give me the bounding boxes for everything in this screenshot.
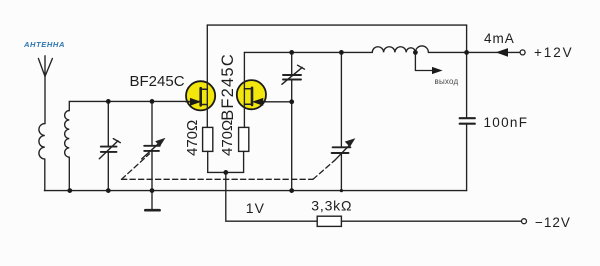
- svg-text:−12V: −12V: [535, 215, 571, 230]
- svg-text:100nF: 100nF: [484, 115, 529, 130]
- wire C3 branch top: [291, 52, 293, 74]
- wire top rail right drop: [466, 25, 468, 52]
- svg-text:BF245C: BF245C: [130, 73, 185, 90]
- resistor R1 470ohm body: [203, 127, 213, 151]
- trimmer capacitor C1 plates: [101, 147, 117, 152]
- transformer secondary L1b: [65, 111, 70, 158]
- svg-text:+12V: +12V: [534, 45, 574, 60]
- transistor Q1 gate arrow: [186, 101, 192, 103]
- node gate-C2: [150, 99, 155, 104]
- wire L1b bottom lead: [68, 157, 70, 190]
- dashed gang linkage: [122, 154, 335, 180]
- node rail-C4: [339, 50, 344, 55]
- wire R1 R2 bottom join: [208, 151, 244, 172]
- terminal -12V: [522, 219, 527, 224]
- svg-text:1V: 1V: [246, 200, 265, 216]
- node Q2 gate-C3: [289, 99, 294, 104]
- wire Q1 drain-source vertical: [206, 25, 208, 127]
- svg-text:выход: выход: [435, 77, 459, 86]
- transistor Q2 channel: [251, 88, 254, 105]
- inductor L2: [372, 46, 428, 53]
- variable capacitor C2 arrow: [142, 144, 159, 159]
- transistor Q2 gate arrow: [260, 101, 266, 103]
- wire Q2 drain-source vertical: [243, 52, 245, 127]
- transistor Q2 BF245C body: [237, 80, 266, 109]
- wire C2 branch: [151, 101, 153, 190]
- current arrow 4mA: [497, 49, 507, 56]
- svg-text:BF245C: BF245C: [219, 53, 237, 121]
- ground: [151, 191, 153, 210]
- wire top rail: [207, 24, 466, 26]
- node gate-C1: [106, 99, 111, 104]
- capacitor C5 100nF plates: [460, 118, 475, 124]
- svg-text:4mA: 4mA: [484, 31, 515, 46]
- wire L1a bottom lead: [44, 159, 46, 191]
- node rail-right: [464, 50, 469, 55]
- node rail-C3: [289, 50, 294, 55]
- trimmer capacitor C3 plates: [283, 75, 301, 80]
- variable capacitor C4 plates: [332, 147, 351, 153]
- wire C3 branch bottom: [291, 80, 293, 190]
- transistor Q1 channel: [199, 88, 202, 105]
- node bus-C2: [150, 188, 155, 193]
- wire to R3 (1V node): [226, 172, 317, 221]
- node bus-C4: [340, 189, 343, 192]
- output tap arrow: [433, 68, 442, 74]
- wire +12V rail left segment: [244, 51, 372, 53]
- antenna: [38, 56, 52, 77]
- transistor Q1 BF245C body: [186, 81, 215, 110]
- node bus-C3: [289, 188, 294, 193]
- wire R3 to -12V terminal: [341, 220, 521, 222]
- output tap wire: [415, 52, 432, 70]
- resistor R3 3.3kohm body: [317, 216, 341, 226]
- variable capacitor C4 arrow: [334, 146, 348, 161]
- trimmer capacitor C1 adjuster: [99, 139, 120, 159]
- node source join: [223, 170, 228, 175]
- variable capacitor C2 plates: [144, 146, 160, 151]
- wire C4 branch: [340, 52, 342, 190]
- transistor Q2 drain/source stubs: [244, 89, 252, 104]
- node bus-C1: [106, 188, 111, 193]
- node bus-L1b: [67, 188, 72, 193]
- transformer primary L1a: [39, 124, 45, 159]
- wire gate bus (L1b top to Q1 gate): [69, 101, 199, 110]
- svg-text:470Ω: 470Ω: [219, 120, 236, 156]
- wire ground bus (bottom rail): [44, 190, 466, 192]
- resistor R2 470ohm body: [239, 127, 249, 151]
- svg-text:3,3kΩ: 3,3kΩ: [311, 197, 352, 213]
- terminal +12V: [520, 50, 525, 55]
- node rail-tap: [413, 50, 418, 55]
- trimmer capacitor C3 adjuster: [282, 65, 305, 84]
- svg-text:АНТЕННА: АНТЕННА: [23, 40, 65, 49]
- wire +12V rail right segment: [428, 51, 520, 53]
- wire C5 100nF branch: [466, 52, 468, 190]
- transistor Q1 drain/source stubs: [201, 89, 208, 104]
- svg-text:470Ω: 470Ω: [184, 120, 201, 156]
- wire C1 branch: [107, 101, 109, 190]
- wire antenna lead: [44, 76, 46, 124]
- wire Q2 gate lead: [266, 101, 292, 103]
